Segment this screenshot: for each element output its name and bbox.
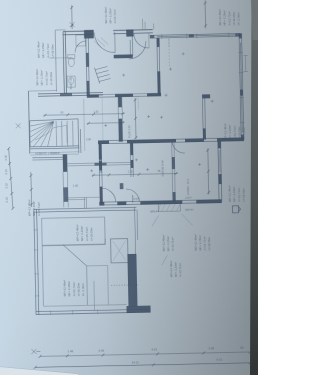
big room right wall upper	[135, 207, 138, 256]
top dimension line	[71, 5, 74, 29]
bath tub	[76, 35, 86, 46]
entry steps	[94, 66, 110, 83]
stair walk line	[35, 125, 67, 144]
right wall window ticks	[238, 53, 244, 123]
hall step wall	[114, 54, 133, 58]
corridor line above pool	[66, 197, 100, 200]
pool bottom wall sill ticks	[51, 310, 98, 315]
main interior wall y141	[98, 138, 244, 144]
top wall left section	[63, 31, 94, 35]
top-right dim line	[204, 0, 207, 28]
interior dim line y174	[92, 173, 178, 175]
door arc y203 left	[101, 188, 116, 203]
corridor bottom wall y163	[67, 162, 130, 166]
leader lines to labels	[152, 214, 194, 266]
right outer wall (living)	[239, 33, 244, 139]
vertical dim x137	[134, 98, 137, 139]
left small ticks	[16, 123, 21, 128]
stair right wall	[78, 119, 81, 153]
door arc y141	[172, 141, 185, 154]
kitchen wall x131	[130, 143, 134, 203]
pool divider	[43, 280, 127, 311]
column pier top A	[84, 30, 93, 38]
faint interior lines	[101, 38, 171, 141]
sauna box	[111, 239, 128, 263]
pool left wall sill ticks	[33, 230, 39, 296]
duct hatch right of vestibule	[94, 37, 108, 47]
living room top window wall	[150, 33, 241, 38]
dark right edge strip	[250, 0, 258, 375]
hatched step below y203	[158, 204, 180, 212]
corridor wall x120	[118, 97, 122, 108]
bottom-left level mark	[31, 349, 40, 354]
leader line T1	[49, 57, 71, 59]
wall stub x85 above pool	[84, 197, 86, 208]
corridor lines under stairs	[30, 152, 79, 155]
column pier top B	[126, 29, 133, 36]
hall bottom wall y95	[87, 93, 161, 97]
small symbols	[88, 52, 215, 173]
paper background	[0, 0, 258, 375]
staircase	[30, 119, 79, 121]
left dimension chain	[9, 148, 13, 208]
bathroom left wall	[63, 31, 67, 93]
bottom dimension line 2	[35, 363, 250, 368]
living door arc	[128, 41, 146, 59]
dashed line living	[168, 39, 171, 67]
bathroom right wall	[86, 34, 90, 96]
interior vertical dim x209	[207, 148, 210, 194]
wall x205	[202, 95, 205, 140]
bottom dimension line 1	[40, 352, 250, 356]
top wall mid section	[113, 30, 153, 34]
stair bay left wall	[28, 91, 29, 153]
big room bottom wall	[36, 309, 151, 314]
bathroom bottom wall	[38, 93, 103, 97]
top-left porch outline	[27, 30, 67, 92]
wc	[68, 58, 74, 67]
entrance door arc	[94, 32, 115, 53]
right outer wall lower x220	[218, 141, 222, 201]
right margin marks	[243, 55, 248, 71]
top wall dim stubs	[142, 18, 153, 29]
left inner dim chain	[30, 172, 33, 207]
photo grain	[0, 0, 1, 1]
window sill ticks top	[162, 32, 229, 39]
dashed line right of pool	[111, 284, 138, 287]
pool inner outline	[42, 217, 106, 246]
big room outer left wall	[34, 209, 39, 314]
vestibule door arc	[134, 33, 149, 48]
interior dim line y113	[43, 114, 124, 116]
big room right hatched wall	[127, 254, 137, 307]
paper bottom edge	[0, 367, 78, 375]
bottom wall upper-plan y203	[99, 200, 221, 205]
hall-living wall	[157, 38, 160, 94]
interior dim line y122	[87, 122, 125, 125]
right small box symbol	[232, 206, 238, 213]
bathroom door arc	[75, 41, 87, 53]
left wing step walls	[32, 157, 63, 160]
washbasin	[67, 76, 75, 87]
lower-mid vertical wall x104	[99, 144, 103, 204]
big room top wall	[34, 207, 137, 212]
door arc y203 right	[126, 189, 139, 202]
wall x177 (kitchen right)	[172, 142, 176, 202]
stairwell dim line	[84, 99, 85, 151]
